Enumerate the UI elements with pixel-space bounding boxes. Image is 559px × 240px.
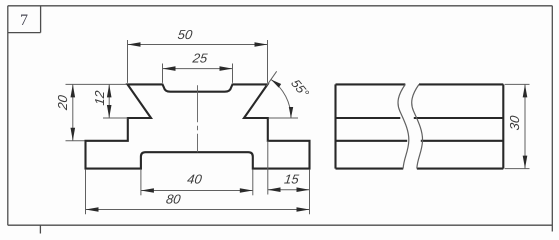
svg-text:7: 7	[20, 12, 28, 29]
svg-text:20: 20	[55, 94, 70, 112]
svg-text:50: 50	[177, 27, 194, 42]
svg-text:40: 40	[186, 171, 203, 186]
svg-text:30: 30	[507, 114, 522, 131]
svg-text:12: 12	[92, 89, 107, 106]
svg-text:15: 15	[283, 171, 300, 186]
svg-text:25: 25	[191, 51, 209, 66]
svg-text:80: 80	[165, 192, 182, 207]
